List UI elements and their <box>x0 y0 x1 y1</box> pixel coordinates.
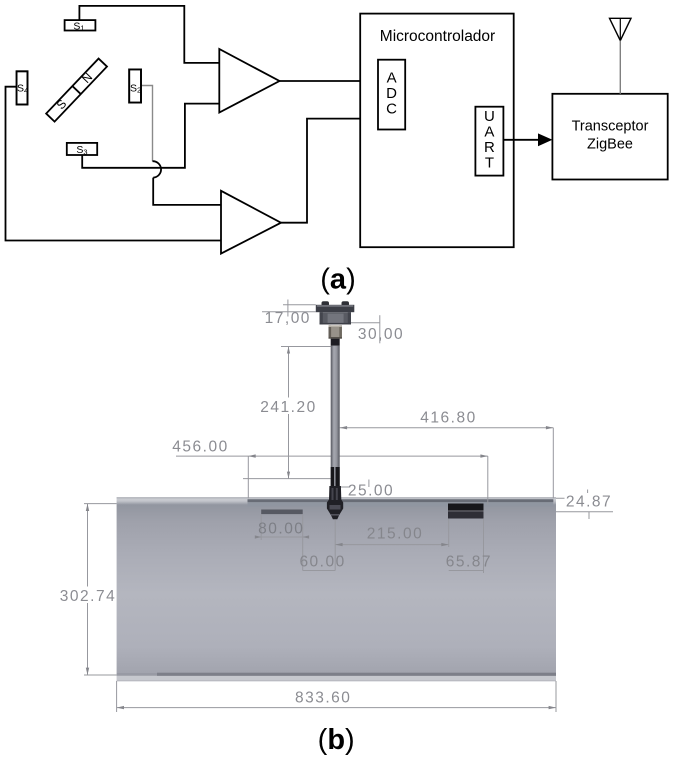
svg-text:D: D <box>386 85 397 102</box>
svg-text:302.74: 302.74 <box>60 588 116 605</box>
wire U1 output to ADC <box>280 80 379 82</box>
dim 65.87 lines <box>449 519 484 573</box>
arrows 241.20 <box>287 347 290 354</box>
magnet bar S-N <box>46 59 107 122</box>
dim 25.00 lines <box>335 480 369 488</box>
svg-text:241.20: 241.20 <box>260 399 316 416</box>
svg-text:833.60: 833.60 <box>295 690 351 707</box>
svg-text:80.00: 80.00 <box>258 521 304 538</box>
svg-text:65.87: 65.87 <box>446 554 492 571</box>
text 302.74 with mask <box>57 587 116 606</box>
entry cone fitting into pipe <box>327 486 343 519</box>
ADC box <box>378 60 405 130</box>
text 241.20 with mask <box>258 398 319 417</box>
text 24.87 with mask <box>565 493 614 511</box>
wire hop (S2 wire jumps over S3 wire) <box>153 161 162 177</box>
arrowhead <box>538 133 552 146</box>
svg-text:416.80: 416.80 <box>420 409 476 426</box>
wire U2 output to ADC <box>281 119 378 223</box>
svg-text:A: A <box>484 123 494 140</box>
arrows 416.80 <box>340 426 347 429</box>
sensor S3 <box>67 143 97 155</box>
pipe bottom dark edge <box>117 673 556 676</box>
svg-text:C: C <box>386 101 397 118</box>
dim 30,00 lines <box>351 315 380 343</box>
dim 24.87 lines <box>556 490 613 520</box>
arrows 456.00 <box>248 454 255 457</box>
svg-text:17,00: 17,00 <box>265 310 311 327</box>
svg-text:215.00: 215.00 <box>367 526 423 543</box>
dim 456.00 lines <box>176 456 488 505</box>
sensor head top plate <box>316 305 355 312</box>
probe rod <box>331 346 340 489</box>
svg-text:T: T <box>485 154 494 171</box>
transceiver ZigBee box <box>552 94 667 180</box>
dark strip (80 mm) on pipe <box>261 510 303 515</box>
sensor S2 <box>129 69 141 102</box>
dim 241.20 lines <box>243 347 331 479</box>
dim 416.80 lines <box>340 428 554 499</box>
svg-text:A: A <box>387 70 397 87</box>
wire from hop to op-amp U2 upper input <box>153 178 221 205</box>
hex nut fitting <box>329 325 342 338</box>
dim 215.00 lines <box>335 519 449 571</box>
dim 80.00 lines <box>255 515 309 571</box>
arrows 833.60 <box>117 706 124 709</box>
op-amp U1 <box>219 49 279 113</box>
rod lower dark section <box>331 467 340 486</box>
dimension lines (gray) <box>84 300 613 713</box>
svg-text:U: U <box>484 108 495 125</box>
op-amp U2 <box>221 191 281 254</box>
UART box <box>475 107 503 176</box>
svg-text:60.00: 60.00 <box>299 554 345 571</box>
svg-text:(a): (a) <box>320 264 355 296</box>
svg-text:(b): (b) <box>318 724 355 756</box>
sensor head bolts <box>322 301 330 306</box>
sensor S4 <box>17 71 29 104</box>
dark collar <box>331 339 340 346</box>
sensor head body <box>320 312 351 324</box>
svg-text:Microcontrolador: Microcontrolador <box>380 28 495 45</box>
svg-text:456.00: 456.00 <box>172 439 228 456</box>
dim 60.00 line <box>303 570 336 572</box>
wire UART to transceiver <box>503 139 539 141</box>
dim 17,00 lines <box>262 300 316 317</box>
wire from S4 to op-amp U2 lower input <box>6 87 222 241</box>
dimension texts <box>57 310 614 707</box>
dim 833.60 lines <box>117 681 556 712</box>
svg-text:30,00: 30,00 <box>358 326 404 343</box>
pipe body <box>117 497 556 681</box>
svg-text:24.87: 24.87 <box>566 494 612 511</box>
arrows 80.00 <box>255 535 261 538</box>
svg-text:Transceptor: Transceptor <box>572 119 649 135</box>
sensor S1 <box>65 20 96 30</box>
microcontroller box <box>360 14 514 248</box>
svg-text:25.00: 25.00 <box>348 483 394 500</box>
antenna <box>610 18 632 94</box>
sensor block on pipe (65.87) <box>448 504 484 519</box>
dimension arrowheads <box>86 347 556 710</box>
schematic labels <box>54 20 649 295</box>
wire from S3 to op-amp U1 lower input <box>82 104 219 168</box>
arrows 215.00 <box>335 543 342 546</box>
wire from S2 (gray segment) <box>141 86 153 162</box>
mounting plate on pipe <box>248 499 554 506</box>
pipe bottom light rim <box>117 676 556 680</box>
arrows 302.74 <box>86 504 89 511</box>
dim 302.74 lines <box>84 504 117 675</box>
svg-text:ZigBee: ZigBee <box>587 137 633 153</box>
svg-text:R: R <box>484 139 495 156</box>
wire from S1 to op-amp U1 upper input <box>79 6 219 63</box>
